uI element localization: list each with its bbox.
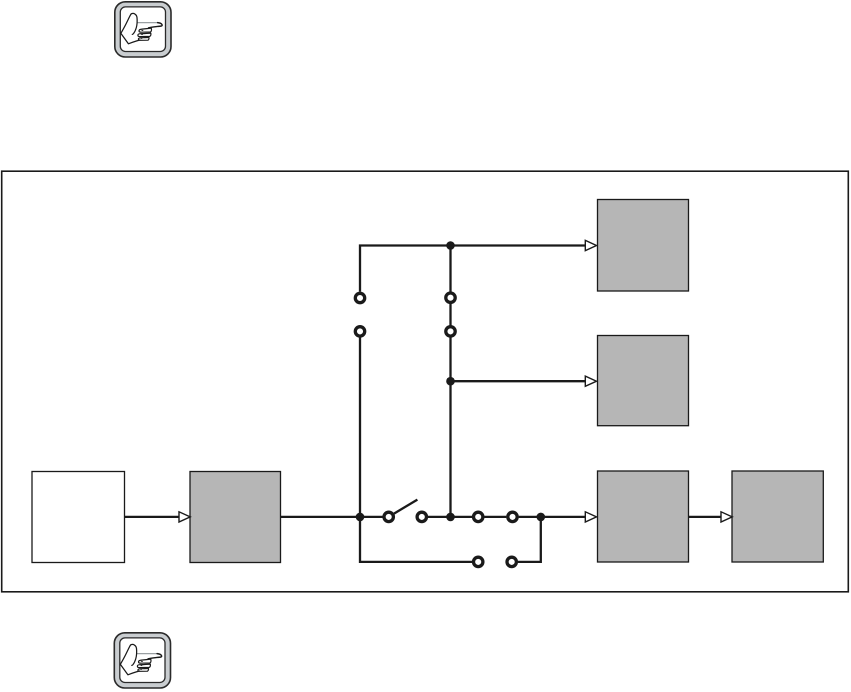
block 4 (gray): [732, 471, 823, 562]
wire: middle branch to middle block arrow: [451, 380, 586, 382]
contact: closed pair right: [508, 512, 517, 521]
wire: mid junction to contact pair: [451, 516, 473, 518]
junction dot middle tee: [446, 377, 455, 386]
arrow into top block: [585, 240, 596, 250]
wire: switch blade: [394, 500, 417, 514]
input box (white): [32, 472, 125, 563]
contact: left branch upper: [355, 293, 364, 302]
arrow into block3: [585, 512, 596, 522]
wire: block3 to block4 arrow: [689, 516, 721, 518]
diagram frame: [2, 171, 849, 592]
junction dot main middle: [446, 513, 455, 522]
contact: middle branch lower: [446, 327, 455, 336]
block top right (gray): [598, 200, 689, 292]
note icon top: [115, 2, 171, 57]
contact: bypass left: [474, 557, 483, 566]
arrow into block4: [721, 512, 732, 522]
junction dot main right: [537, 513, 546, 522]
mask gap on left branch open contact: [352, 292, 368, 338]
arrow into block1: [179, 512, 190, 522]
junction dot top tee: [446, 241, 455, 250]
wire: block1 right to switch A: [281, 516, 383, 518]
wire: contact to block3 arrow: [519, 516, 586, 518]
junction dot main left: [356, 513, 365, 522]
wire: between closed contacts: [484, 516, 506, 518]
contact: closed pair left: [474, 512, 483, 521]
wire: bypass right side up to junction: [518, 517, 541, 562]
block 3 (gray): [598, 471, 689, 562]
contact: middle branch upper: [446, 293, 455, 302]
block middle right (gray): [598, 336, 689, 426]
contact: switch A: [384, 512, 393, 521]
contact: switch B: [417, 512, 426, 521]
wire: switch B to mid junction: [428, 516, 451, 518]
block 1 (gray): [190, 472, 281, 563]
note icon bottom: [114, 633, 170, 688]
wire: middle vertical branch: [449, 246, 451, 517]
wire: top horizontal feed: [360, 246, 585, 517]
wire: input box to block1 arrow: [125, 516, 180, 518]
wire: bypass lower path: [360, 517, 472, 562]
contact: left branch lower: [355, 327, 364, 336]
contact: bypass right: [507, 557, 516, 566]
arrow into middle block: [585, 376, 596, 386]
